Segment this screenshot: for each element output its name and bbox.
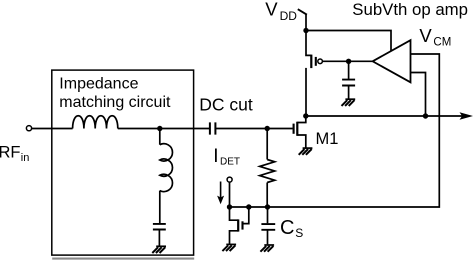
- svg-text:M1: M1: [316, 130, 339, 148]
- svg-text:V: V: [419, 25, 432, 46]
- svg-text:Impedance: Impedance: [59, 76, 138, 93]
- svg-text:I: I: [213, 146, 218, 167]
- svg-text:CM: CM: [433, 37, 451, 49]
- svg-text:S: S: [295, 226, 303, 240]
- svg-text:matching circuit: matching circuit: [59, 94, 171, 111]
- svg-text:RF: RF: [0, 144, 21, 162]
- svg-text:SubVth op amp: SubVth op amp: [352, 0, 468, 19]
- svg-text:V: V: [265, 0, 278, 20]
- svg-text:DC cut: DC cut: [199, 95, 253, 115]
- svg-text:DET: DET: [220, 156, 240, 167]
- svg-text:in: in: [21, 152, 30, 164]
- svg-text:DD: DD: [280, 9, 298, 23]
- svg-text:C: C: [280, 217, 294, 239]
